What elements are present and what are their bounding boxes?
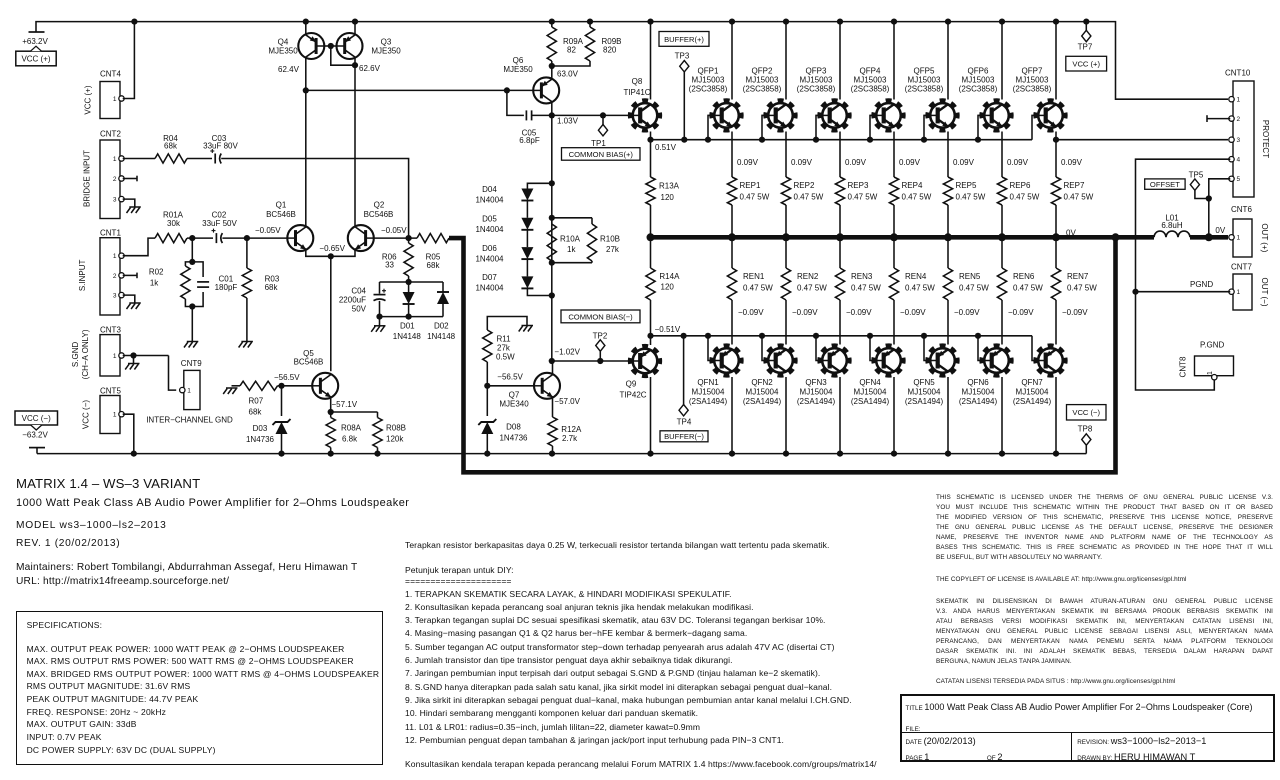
svg-text:REN3: REN3 xyxy=(851,272,873,281)
label box VCC(-) right xyxy=(1067,405,1107,420)
svg-text:50V: 50V xyxy=(352,305,367,314)
svg-text:1N4148: 1N4148 xyxy=(393,332,422,341)
svg-text:MJ15003: MJ15003 xyxy=(746,76,779,85)
transistor QFP7 MJ15003 xyxy=(1035,100,1065,130)
wire QFP2 base stub xyxy=(761,115,764,139)
transistor QFN1 MJ15004 xyxy=(711,345,741,375)
svg-text:MJ15004: MJ15004 xyxy=(1016,388,1049,397)
wire between diodes xyxy=(526,201,528,218)
svg-text:D08: D08 xyxy=(506,423,521,432)
svg-text:MJ15004: MJ15004 xyxy=(746,388,779,397)
svg-text:S.INPUT: S.INPUT xyxy=(78,260,87,292)
wire Q6 emitter xyxy=(551,66,553,78)
svg-text:68k: 68k xyxy=(265,283,279,292)
svg-text:BUFFER(−): BUFFER(−) xyxy=(664,432,704,441)
svg-text:COMMON BIAS(+): COMMON BIAS(+) xyxy=(569,150,634,159)
test point TP2 xyxy=(599,351,601,361)
wire QFN1 base stub xyxy=(708,336,714,361)
svg-text:120: 120 xyxy=(661,282,675,291)
svg-text:1k: 1k xyxy=(567,245,576,254)
wire Q3 emitter to rail xyxy=(354,22,356,35)
wire Q2 base to node xyxy=(373,237,417,239)
wire QFN1 collector xyxy=(731,377,733,454)
svg-text:120k: 120k xyxy=(386,434,404,443)
wire between diodes xyxy=(526,259,528,276)
svg-text:1: 1 xyxy=(113,156,117,163)
svg-text:R14A: R14A xyxy=(659,272,680,281)
wire QFN4 base stub xyxy=(870,336,876,361)
net VEE bottom rail xyxy=(37,453,1086,455)
transistor QFP1 MJ15003 xyxy=(711,100,741,130)
wire QFN6 base stub xyxy=(978,336,984,361)
ground below R02 xyxy=(187,341,199,343)
wire QFP4 emitter xyxy=(893,132,895,178)
svg-text:1N4004: 1N4004 xyxy=(475,225,504,234)
svg-text:(2SA1494): (2SA1494) xyxy=(959,397,998,406)
svg-text:(2SA1494): (2SA1494) xyxy=(851,397,890,406)
svg-text:Q3: Q3 xyxy=(381,38,392,47)
svg-text:0.47 5W: 0.47 5W xyxy=(1067,284,1097,293)
svg-text:R13A: R13A xyxy=(659,182,680,191)
wire QFN4 emitter xyxy=(893,300,895,345)
wire Q9 collector to VEE xyxy=(650,377,652,454)
svg-text:QFN5: QFN5 xyxy=(913,378,935,387)
test point TP4 xyxy=(681,333,687,339)
ground below R03 xyxy=(241,341,253,343)
svg-text:QFP5: QFP5 xyxy=(914,67,935,76)
svg-text:BRIDGE INPUT: BRIDGE INPUT xyxy=(82,150,91,207)
wire QFP3 base stub xyxy=(815,115,818,139)
resistor R05 xyxy=(417,234,449,243)
svg-text:VCC (−): VCC (−) xyxy=(82,400,91,429)
resistor R10B xyxy=(587,224,596,261)
wire QFN7 collector xyxy=(1055,377,1057,454)
svg-text:MJ15004: MJ15004 xyxy=(692,388,725,397)
ground at CNT1 pin3 xyxy=(129,302,141,304)
svg-text:33: 33 xyxy=(385,261,394,270)
svg-text:0.47 5W: 0.47 5W xyxy=(1013,284,1043,293)
ground above R11 xyxy=(522,325,534,327)
wire QFP7 emitter xyxy=(1055,132,1057,178)
wire QFP4 base stub xyxy=(869,115,872,139)
resistor R06 xyxy=(408,238,410,243)
diode D06 1N4004 xyxy=(521,247,533,259)
svg-text:0.09V: 0.09V xyxy=(791,158,813,167)
wire CNT1 pin3 to ground xyxy=(123,295,135,303)
svg-text:0.51V: 0.51V xyxy=(655,143,677,152)
wire QFN4 collector xyxy=(893,377,895,454)
svg-text:2: 2 xyxy=(113,273,117,280)
wire Q1/Q2 emitter tail xyxy=(306,250,355,256)
transistor Q4 MJE350 xyxy=(298,33,324,59)
svg-text:Q4: Q4 xyxy=(278,38,289,47)
svg-text:3: 3 xyxy=(1237,137,1241,144)
svg-text:−0.09V: −0.09V xyxy=(738,308,764,317)
capacitor C02 xyxy=(215,233,217,243)
svg-text:−57.0V: −57.0V xyxy=(554,397,580,406)
svg-text:68k: 68k xyxy=(249,408,263,417)
svg-text:R08B: R08B xyxy=(386,424,406,433)
wire QFP2 emitter xyxy=(785,132,787,178)
svg-text:OUT (−): OUT (−) xyxy=(1260,278,1269,307)
svg-text:68k: 68k xyxy=(427,261,441,270)
wire Q4 collector to Q6 base xyxy=(306,89,533,91)
svg-text:S.GND: S.GND xyxy=(71,342,80,368)
svg-text:5: 5 xyxy=(1237,176,1241,183)
resistor REN4 0.47 5W xyxy=(889,268,898,300)
svg-text:MJ15004: MJ15004 xyxy=(962,388,995,397)
svg-text:MJ15003: MJ15003 xyxy=(908,76,941,85)
svg-text:30k: 30k xyxy=(167,219,181,228)
resistor R14A xyxy=(650,237,652,268)
svg-text:QFP7: QFP7 xyxy=(1022,67,1043,76)
resistor R10A xyxy=(551,218,553,224)
wire R07 to Q5 base xyxy=(278,385,313,387)
svg-text:Q9: Q9 xyxy=(626,380,637,389)
capacitor C01 xyxy=(197,281,209,283)
wire CNT2 pin2 stub xyxy=(123,178,137,180)
svg-text:INTER−CHANNEL GND: INTER−CHANNEL GND xyxy=(146,416,233,425)
wire R02/C01 to ground xyxy=(185,299,192,307)
svg-text:1: 1 xyxy=(113,353,117,360)
wire QFN6 emitter xyxy=(1001,300,1003,345)
wire QFP4 collector xyxy=(893,22,895,100)
svg-text:BC546B: BC546B xyxy=(266,210,296,219)
svg-text:0.09V: 0.09V xyxy=(953,158,975,167)
svg-text:MJE350: MJE350 xyxy=(503,65,533,74)
resistor REP1 0.47 5W xyxy=(727,177,736,205)
svg-text:TP1: TP1 xyxy=(591,139,606,148)
svg-text:OFFSET: OFFSET xyxy=(1150,180,1180,189)
wire bias column xyxy=(551,115,553,361)
svg-text:3: 3 xyxy=(113,293,117,300)
test point TP1 xyxy=(602,115,604,124)
svg-text:VCC (+): VCC (+) xyxy=(1072,60,1100,69)
wire QFP6 collector xyxy=(1001,22,1003,100)
wire Q4 emitter to rail xyxy=(305,22,307,35)
svg-text:−0.05V: −0.05V xyxy=(381,226,407,235)
label box VCC(+) right xyxy=(1066,56,1107,71)
svg-text:BC546B: BC546B xyxy=(364,210,394,219)
svg-text:180pF: 180pF xyxy=(215,283,238,292)
wire parallel bottom bus xyxy=(380,316,444,318)
svg-text:0.09V: 0.09V xyxy=(1007,158,1029,167)
svg-text:D07: D07 xyxy=(482,273,497,282)
svg-text:MJ15004: MJ15004 xyxy=(854,388,887,397)
net VCC+ top rail xyxy=(36,22,1228,100)
power flag VCC(-) bottom left xyxy=(29,447,45,449)
resistor R09A xyxy=(551,22,553,27)
svg-text:QFP3: QFP3 xyxy=(806,67,827,76)
wire Q6 collector to bias node xyxy=(551,103,553,116)
svg-text:1: 1 xyxy=(187,388,191,395)
wire QFN2 collector xyxy=(785,377,787,454)
svg-text:1: 1 xyxy=(1237,235,1241,242)
resistor R13A xyxy=(650,140,652,177)
svg-text:MJ15003: MJ15003 xyxy=(962,76,995,85)
svg-text:+63.2V: +63.2V xyxy=(22,37,48,46)
diode D01 1N4148 xyxy=(408,282,410,292)
resistor R12A xyxy=(552,398,554,417)
svg-text:Q7: Q7 xyxy=(509,391,520,400)
svg-text:0.09V: 0.09V xyxy=(899,158,921,167)
svg-text:−57.1V: −57.1V xyxy=(332,400,358,409)
diode D08 zener 1N4736 xyxy=(486,386,488,416)
svg-text:REN4: REN4 xyxy=(905,272,927,281)
resistor REP6 0.47 5W xyxy=(997,177,1006,205)
resistor REN7 0.47 5W xyxy=(1051,268,1060,300)
svg-text:1N4736: 1N4736 xyxy=(246,435,275,444)
svg-text:0.47 5W: 0.47 5W xyxy=(794,192,824,201)
svg-text:−0.09V: −0.09V xyxy=(900,308,926,317)
wire CNT8 to PGND net xyxy=(1136,292,1215,390)
wire QFP3 collector xyxy=(839,22,841,100)
svg-text:0.47 5W: 0.47 5W xyxy=(905,284,935,293)
diode D03 zener 1N4736 xyxy=(281,386,283,416)
svg-text:R10A: R10A xyxy=(560,234,581,243)
svg-text:−63.2V: −63.2V xyxy=(22,430,48,439)
ground at R07 xyxy=(226,387,238,389)
wire R02/C01 branch xyxy=(191,238,193,262)
svg-text:R12A: R12A xyxy=(561,425,582,434)
svg-text:−0.05V: −0.05V xyxy=(255,226,281,235)
svg-text:−0.09V: −0.09V xyxy=(1008,308,1034,317)
svg-text:(2SA1494): (2SA1494) xyxy=(797,397,836,406)
wire Q8 emitter to 0.51V bus xyxy=(650,132,652,140)
svg-text:−0.09V: −0.09V xyxy=(954,308,980,317)
svg-text:MJ15003: MJ15003 xyxy=(854,76,887,85)
svg-text:(2SA1494): (2SA1494) xyxy=(689,397,728,406)
resistor R02 xyxy=(181,266,190,299)
svg-text:VCC (+): VCC (+) xyxy=(21,55,50,64)
svg-text:0.5W: 0.5W xyxy=(496,352,515,361)
svg-text:MJE350: MJE350 xyxy=(268,47,298,56)
svg-text:0.47 5W: 0.47 5W xyxy=(1010,192,1040,201)
svg-text:(CH−A ONLY): (CH−A ONLY) xyxy=(81,329,90,379)
svg-text:QFN4: QFN4 xyxy=(859,378,881,387)
svg-text:33uF 80V: 33uF 80V xyxy=(203,141,238,150)
svg-text:120: 120 xyxy=(661,193,675,202)
net -0.51V buffer- bus xyxy=(651,335,1009,337)
transistor QFN7 MJ15004 xyxy=(1035,345,1065,375)
svg-text:D04: D04 xyxy=(482,185,497,194)
svg-text:REN5: REN5 xyxy=(959,272,981,281)
wire Q8 collector to rail xyxy=(650,22,652,100)
svg-text:TP3: TP3 xyxy=(675,52,690,61)
resistor REP7 0.47 5W xyxy=(1051,177,1060,205)
svg-text:TIP41C: TIP41C xyxy=(623,88,650,97)
svg-text:MJ15003: MJ15003 xyxy=(692,76,725,85)
svg-text:MJ15003: MJ15003 xyxy=(1016,76,1049,85)
svg-text:BUFFER(+): BUFFER(+) xyxy=(664,35,704,44)
svg-text:TP7: TP7 xyxy=(1078,42,1093,51)
svg-text:2: 2 xyxy=(113,176,117,183)
transistor QFN3 MJ15004 xyxy=(819,345,849,375)
svg-text:−0.09V: −0.09V xyxy=(846,308,872,317)
svg-text:2.7k: 2.7k xyxy=(562,434,578,443)
transistor Q1 BC546B xyxy=(287,225,313,251)
svg-text:0.47 5W: 0.47 5W xyxy=(902,192,932,201)
svg-text:2: 2 xyxy=(1237,116,1241,123)
resistor REN3 0.47 5W xyxy=(835,268,844,300)
wire Q7 collector to -1.02V bus xyxy=(552,361,554,374)
svg-text:R10B: R10B xyxy=(600,234,620,243)
resistor R03 xyxy=(246,238,248,268)
wire QFP5 emitter xyxy=(947,132,949,178)
label box COMMON BIAS(-) xyxy=(561,310,640,323)
svg-text:27k: 27k xyxy=(497,344,511,353)
wire R11/D08 to Q7 base xyxy=(484,383,490,389)
wire between diodes xyxy=(526,230,528,247)
svg-text:−1.02V: −1.02V xyxy=(554,347,580,356)
svg-text:(2SC3858): (2SC3858) xyxy=(959,85,998,94)
svg-text:0.47 5W: 0.47 5W xyxy=(959,284,989,293)
capacitor C05 xyxy=(507,90,524,115)
wire Q4 collector down xyxy=(305,57,307,225)
svg-text:(2SC3858): (2SC3858) xyxy=(689,85,728,94)
svg-text:0.47 5W: 0.47 5W xyxy=(740,192,770,201)
label box COMMON BIAS(+) xyxy=(562,148,641,161)
capacitor C03 xyxy=(214,154,216,164)
svg-text:62.4V: 62.4V xyxy=(278,65,300,74)
svg-text:REN7: REN7 xyxy=(1067,272,1089,281)
svg-text:68k: 68k xyxy=(164,141,178,150)
resistor REN6 0.47 5W xyxy=(997,268,1006,300)
svg-text:0V: 0V xyxy=(1215,226,1225,235)
wire QFN2 base stub xyxy=(762,336,768,361)
svg-text:−0.09V: −0.09V xyxy=(792,308,818,317)
svg-text:1N4736: 1N4736 xyxy=(499,434,528,443)
transistor QFP2 MJ15003 xyxy=(765,100,795,130)
svg-text:TP2: TP2 xyxy=(593,332,608,341)
wire CNT10 pin4 to PGND xyxy=(1136,159,1231,292)
wire Q3 collector down to Q2 xyxy=(354,57,356,225)
svg-text:Q2: Q2 xyxy=(374,201,385,210)
svg-text:REP1: REP1 xyxy=(740,181,761,190)
svg-text:MJ15004: MJ15004 xyxy=(800,388,833,397)
svg-text:0.47 5W: 0.47 5W xyxy=(797,284,827,293)
net 0V output rail (bold) xyxy=(651,235,1155,240)
wire R03 to ground xyxy=(246,298,248,342)
svg-text:(2SA1494): (2SA1494) xyxy=(743,397,782,406)
resistor REP5 0.47 5W xyxy=(943,177,952,205)
resistor REN1 0.47 5W xyxy=(727,268,736,300)
capacitor C04 xyxy=(379,282,381,294)
transistor Q7 MJE340 xyxy=(534,373,560,399)
svg-text:1: 1 xyxy=(113,253,117,260)
svg-text:0.47 5W: 0.47 5W xyxy=(956,192,986,201)
wire QFN6 collector xyxy=(1001,377,1003,454)
wire PGND line xyxy=(1136,291,1231,293)
svg-text:1N4004: 1N4004 xyxy=(475,254,504,263)
svg-text:D06: D06 xyxy=(482,244,497,253)
wire QFP1 emitter xyxy=(731,132,733,178)
wire R09B bottom jumper xyxy=(552,61,590,66)
test point TP7 xyxy=(1085,22,1087,31)
svg-text:(2SC3858): (2SC3858) xyxy=(797,85,836,94)
svg-text:−56.5V: −56.5V xyxy=(274,373,300,382)
svg-text:62.6V: 62.6V xyxy=(359,64,381,73)
label box BUFFER(+) xyxy=(659,32,709,47)
svg-text:0.09V: 0.09V xyxy=(1061,158,1083,167)
svg-text:TP5: TP5 xyxy=(1189,170,1204,179)
resistor R08B xyxy=(331,411,378,413)
svg-text:P.GND: P.GND xyxy=(1200,341,1225,350)
svg-text:CNT7: CNT7 xyxy=(1231,262,1252,271)
svg-text:1N4148: 1N4148 xyxy=(427,332,456,341)
svg-text:MJE350: MJE350 xyxy=(371,47,401,56)
svg-text:−56.5V: −56.5V xyxy=(497,372,523,381)
bold NFB / ground loop box xyxy=(449,237,1116,472)
transistor Q6 MJE350 xyxy=(533,77,559,103)
svg-text:CNT6: CNT6 xyxy=(1231,205,1252,214)
svg-text:0.09V: 0.09V xyxy=(737,158,759,167)
svg-text:REN1: REN1 xyxy=(743,272,765,281)
svg-text:REP4: REP4 xyxy=(902,181,923,190)
wire Q4/Q3 base tie xyxy=(324,45,337,47)
svg-text:0V: 0V xyxy=(1066,228,1076,237)
label box OFFSET xyxy=(1145,179,1185,189)
svg-text:VCC (+): VCC (+) xyxy=(84,85,93,114)
svg-text:82: 82 xyxy=(567,46,576,55)
svg-text:0.09V: 0.09V xyxy=(845,158,867,167)
svg-text:−0.65V: −0.65V xyxy=(319,244,345,253)
svg-text:0.47 5W: 0.47 5W xyxy=(851,284,881,293)
svg-text:D03: D03 xyxy=(253,424,268,433)
svg-text:27k: 27k xyxy=(606,245,620,254)
wire CNT10 pin5 to 0V xyxy=(1209,179,1231,238)
transistor Q5 BC546B xyxy=(312,373,338,399)
svg-text:1k: 1k xyxy=(150,279,159,288)
resistor R04 xyxy=(155,154,187,163)
ground at CNT2 pin3 xyxy=(129,206,141,208)
svg-text:1: 1 xyxy=(1237,289,1241,296)
svg-text:MJE340: MJE340 xyxy=(499,400,529,409)
diode chain top wire xyxy=(527,183,551,190)
svg-text:D02: D02 xyxy=(434,322,449,331)
svg-text:REP3: REP3 xyxy=(848,181,869,190)
svg-text:PROTECT: PROTECT xyxy=(1261,120,1270,158)
diode D05 1N4004 xyxy=(521,218,533,230)
svg-text:COMMON BIAS(−): COMMON BIAS(−) xyxy=(568,312,633,321)
resistor R08A xyxy=(330,412,332,418)
svg-text:D05: D05 xyxy=(482,215,497,224)
wire R06 to C04/D01/D02 bus xyxy=(408,276,410,282)
svg-text:(2SC3858): (2SC3858) xyxy=(851,85,890,94)
svg-text:R02: R02 xyxy=(149,268,164,277)
test point TP3 xyxy=(681,137,687,143)
wire tail to Q5 collector xyxy=(330,256,332,371)
svg-text:CNT4: CNT4 xyxy=(100,70,121,79)
wire Q5 emitter to R08 node xyxy=(330,398,332,412)
wire QFP6 emitter xyxy=(1001,132,1003,178)
diode D02 1N4148 xyxy=(442,282,444,292)
wire QFP7 collector xyxy=(1055,22,1057,100)
transistor Q3 MJE350 xyxy=(337,33,363,59)
svg-text:D01: D01 xyxy=(400,322,415,331)
svg-text:0.47 5W: 0.47 5W xyxy=(848,192,878,201)
svg-text:3: 3 xyxy=(113,197,117,204)
svg-text:MJ15003: MJ15003 xyxy=(800,76,833,85)
svg-text:C04: C04 xyxy=(351,287,366,296)
transistor QFP3 MJ15003 xyxy=(819,100,849,130)
svg-text:QFP2: QFP2 xyxy=(752,67,773,76)
wire QFP3 emitter xyxy=(839,132,841,178)
svg-text:TP4: TP4 xyxy=(677,417,692,426)
svg-text:REN2: REN2 xyxy=(797,272,819,281)
resistor REP3 0.47 5W xyxy=(835,177,844,205)
wire QFN5 collector xyxy=(947,377,949,454)
